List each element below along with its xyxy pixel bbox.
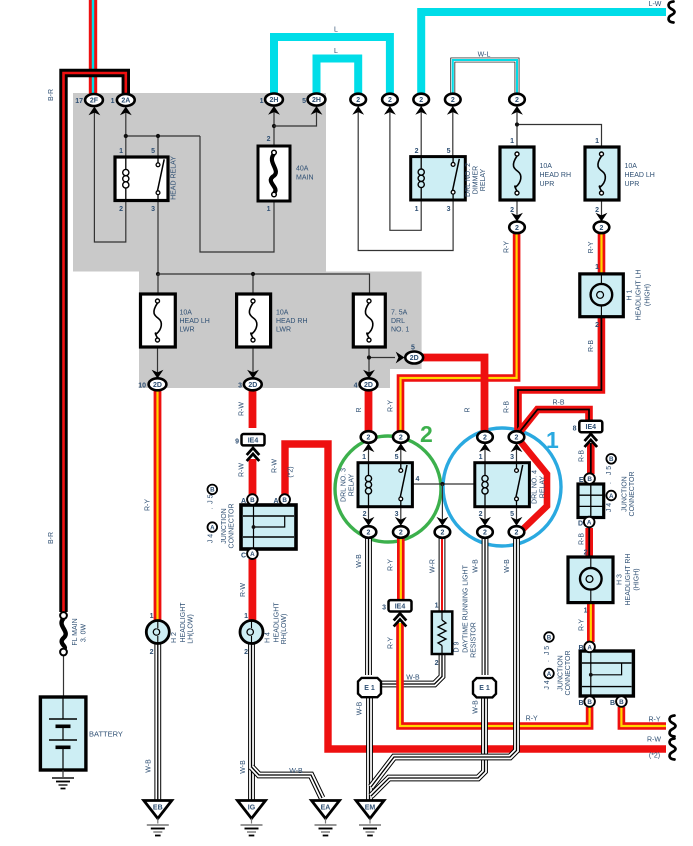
svg-text:R-Y: R-Y xyxy=(504,241,511,253)
connector 2 DRL relay bottom xyxy=(509,517,525,538)
wire W-B H4 to IG ground xyxy=(248,643,255,800)
svg-text:8: 8 xyxy=(573,426,577,433)
pin label 3 xyxy=(447,206,451,213)
svg-text:2: 2 xyxy=(479,511,483,518)
svg-text:H 2: H 2 xyxy=(171,632,178,643)
wire junction to head relay pin 1 xyxy=(125,136,127,157)
wire W-L dimmer to UPR fuses xyxy=(453,60,517,94)
svg-text:1: 1 xyxy=(260,98,264,105)
svg-text:W-R: W-R xyxy=(430,559,437,573)
pin label 2 xyxy=(584,550,588,557)
svg-text:A: A xyxy=(587,519,592,526)
pin label B xyxy=(578,700,583,707)
svg-text:A: A xyxy=(609,493,614,500)
label R-B horizontal xyxy=(552,400,564,407)
svg-text:A: A xyxy=(547,671,552,678)
relay HEAD RELAY xyxy=(115,157,168,201)
svg-text:.: . xyxy=(606,482,613,484)
headlight H4 HEADLIGHT RH LOW xyxy=(240,621,263,644)
svg-text:BATTERY: BATTERY xyxy=(89,730,123,739)
svg-text:LH(LOW): LH(LOW) xyxy=(188,614,195,644)
label W-B horizontal near D9 xyxy=(406,675,420,682)
label R-Y xyxy=(388,637,395,649)
svg-text:A: A xyxy=(210,524,215,531)
svg-text:DAYTIME RUNNING LIGHT: DAYTIME RUNNING LIGHT xyxy=(462,564,469,652)
label CONNECTOR xyxy=(565,651,572,696)
label R xyxy=(356,407,363,412)
svg-text:L: L xyxy=(334,48,338,55)
connector 10(2D) xyxy=(149,370,167,391)
label HEADLIGHT xyxy=(274,602,281,643)
pin label 3 xyxy=(382,605,386,612)
wire B-R battery feed xyxy=(64,73,126,612)
gray block: relay box upper section xyxy=(73,93,326,272)
svg-text:RELAY: RELAY xyxy=(540,475,547,498)
wire R 5(2D) to DRL NO.4 pin1 xyxy=(423,358,485,432)
pin D(A) junction upper right xyxy=(584,517,595,528)
wire R 4(2D) to DRL NO.3 pin1 xyxy=(365,390,373,431)
label JUNCTION xyxy=(558,655,565,690)
svg-text:2: 2 xyxy=(440,530,444,537)
wire dimmer relay pin 1 loop to 2 connector xyxy=(390,106,421,230)
label R-W xyxy=(240,583,247,597)
svg-text:.: . xyxy=(207,507,214,509)
gray block: relay box right extension xyxy=(326,272,422,370)
svg-text:JUNCTION: JUNCTION xyxy=(622,476,629,511)
svg-text:IE4: IE4 xyxy=(586,424,597,431)
pin label 5 above 5(2D) xyxy=(411,345,415,352)
wire W-B DRL4 pin5 to EM ground xyxy=(371,538,517,787)
svg-text:W-B: W-B xyxy=(240,760,247,774)
svg-text:A: A xyxy=(241,498,246,505)
label RH(LOW) xyxy=(281,614,288,645)
label DRL NO. 2 xyxy=(465,163,472,197)
svg-text:J 5: J 5 xyxy=(544,646,551,655)
svg-text:1: 1 xyxy=(150,613,154,620)
pin label 1 xyxy=(119,148,123,155)
svg-text:CONNECTOR: CONNECTOR xyxy=(629,472,636,517)
svg-text:1: 1 xyxy=(595,264,599,271)
connector 2 top row xyxy=(382,94,398,115)
label (*2) xyxy=(288,466,295,477)
pin label 1 xyxy=(510,138,514,145)
node dot fuse bus middle xyxy=(251,272,255,276)
svg-text:2: 2 xyxy=(415,148,419,155)
label HEADLIGHT RH xyxy=(625,554,632,606)
battery ground xyxy=(52,770,74,789)
connector 2 DRL relay bottom xyxy=(477,517,493,538)
svg-text:HEAD RH: HEAD RH xyxy=(276,318,308,325)
svg-text:2: 2 xyxy=(267,136,271,143)
wire DRL NO.4 relay pin5 bottom xyxy=(516,507,518,526)
svg-text:DRL: DRL xyxy=(391,318,405,325)
svg-text:7. 5A: 7. 5A xyxy=(391,310,408,317)
label R-Y xyxy=(579,619,586,631)
svg-text:EB: EB xyxy=(153,805,163,812)
svg-text:3: 3 xyxy=(395,511,399,518)
pin label 2 xyxy=(119,206,123,213)
svg-text:2: 2 xyxy=(119,206,123,213)
label HEADLIGHT LH xyxy=(636,270,643,321)
svg-text:R-B: R-B xyxy=(579,533,586,545)
svg-text:HEAD RH: HEAD RH xyxy=(540,172,572,179)
svg-text:1: 1 xyxy=(584,608,588,615)
wire W-B D9 pin2 to E1 xyxy=(381,654,442,684)
node dot UPR fuse bus xyxy=(515,122,519,126)
fuse 10A HEAD LH LWR xyxy=(141,294,176,347)
pin label 1 xyxy=(479,454,483,461)
pin label D xyxy=(578,521,583,528)
svg-text:W-B: W-B xyxy=(473,700,480,714)
wire W-B branch to EA ground xyxy=(252,767,323,798)
svg-text:1: 1 xyxy=(546,427,559,453)
pin label A xyxy=(241,498,246,505)
svg-text:E: E xyxy=(579,477,584,484)
node dot at 2H junction xyxy=(272,124,276,128)
svg-text:W-B: W-B xyxy=(289,768,303,775)
svg-text:1: 1 xyxy=(595,138,599,145)
svg-text:B: B xyxy=(587,476,592,483)
svg-text:5: 5 xyxy=(395,454,399,461)
svg-text:A: A xyxy=(587,644,592,651)
svg-text:2: 2 xyxy=(595,322,599,329)
blue highlight circle around DRL NO.4 relay xyxy=(443,427,561,546)
ground EB xyxy=(144,801,172,836)
svg-text:RELAY: RELAY xyxy=(349,473,356,496)
pin label 2 xyxy=(267,136,271,143)
svg-text:B: B xyxy=(282,497,287,504)
svg-text:2F: 2F xyxy=(90,98,99,105)
octagon connector E1 right xyxy=(473,678,496,697)
label W-B xyxy=(240,760,247,774)
connector 2 DRL relay bottom xyxy=(435,517,451,538)
svg-text:CONNECTOR: CONNECTOR xyxy=(229,504,236,549)
svg-text:J 4: J 4 xyxy=(544,680,551,689)
wire W-R DRL connector to D9 pin1 xyxy=(439,538,446,612)
pin label 1 xyxy=(415,206,419,213)
svg-text:A: A xyxy=(250,551,255,558)
svg-text:5: 5 xyxy=(151,148,155,155)
svg-text:9: 9 xyxy=(235,439,239,446)
pin label 9 xyxy=(235,439,239,446)
svg-text:RH(LOW): RH(LOW) xyxy=(281,614,288,645)
pin label 1 xyxy=(362,454,366,461)
wire L outer 2H to dimmer connector xyxy=(274,37,390,94)
label R-W xyxy=(239,402,246,416)
label B-R xyxy=(48,89,55,101)
svg-text:D: D xyxy=(578,521,583,528)
svg-text:H 3: H 3 xyxy=(617,574,624,585)
svg-text:E 1: E 1 xyxy=(364,685,375,692)
pin label B xyxy=(610,700,615,707)
wire W-B E1 to EM ground xyxy=(366,696,373,800)
svg-text:R-Y: R-Y xyxy=(526,716,538,723)
svg-text:R-Y: R-Y xyxy=(579,619,586,631)
octagon connector E1 left xyxy=(358,678,381,697)
green highlight circle around DRL NO.3 relay xyxy=(335,421,441,542)
label R-W xyxy=(272,459,279,473)
label W-R xyxy=(430,559,437,573)
label D 9 xyxy=(454,641,461,652)
wire R-B junction connector to H3 xyxy=(585,528,593,558)
label RELAY xyxy=(480,168,487,191)
svg-text:HEAD LH: HEAD LH xyxy=(180,318,210,325)
fuse 10A HEAD RH LWR xyxy=(237,294,271,347)
pin label 1 xyxy=(260,98,264,105)
connector 2 DRL relay top xyxy=(477,431,493,452)
label DAYTIME RUNNING LIGHT xyxy=(462,564,469,652)
label L inner wire xyxy=(334,48,338,55)
svg-text:B: B xyxy=(210,487,215,494)
pin label 1 xyxy=(244,613,248,620)
label (*2) right edge xyxy=(649,753,660,760)
svg-text:2: 2 xyxy=(367,435,371,442)
svg-text:DRL NO. 4: DRL NO. 4 xyxy=(532,470,539,504)
svg-text:(*2): (*2) xyxy=(288,466,295,477)
pin label 1 xyxy=(584,608,588,615)
svg-text:3. 0W: 3. 0W xyxy=(81,623,88,642)
svg-text:10A: 10A xyxy=(625,163,638,170)
svg-text:B: B xyxy=(547,634,552,641)
wire head relay pin 2 loop to 2F xyxy=(94,106,125,242)
wire FL MAIN to battery xyxy=(63,655,65,697)
pin label 1 xyxy=(111,98,115,105)
svg-text:2: 2 xyxy=(399,530,403,537)
continuation squiggle L-W top right xyxy=(669,2,675,23)
svg-text:CONNECTOR: CONNECTOR xyxy=(565,651,572,696)
wire DRL NO.4 relay pin3 top xyxy=(516,443,518,463)
svg-text:2: 2 xyxy=(515,435,519,442)
svg-text:HEADLIGHT RH: HEADLIGHT RH xyxy=(625,554,632,606)
wire UPR LH fuse to 2 connector xyxy=(601,200,603,221)
connector 17(2F) xyxy=(85,94,103,115)
connector 5(2D) xyxy=(396,352,423,364)
wire R-Y UPR LH fuse to H1 xyxy=(598,232,606,275)
svg-text:L-W: L-W xyxy=(649,1,662,8)
pin label 8 xyxy=(573,426,577,433)
pin label 1 xyxy=(595,138,599,145)
label H 1 xyxy=(627,289,634,300)
label W-B xyxy=(356,554,363,568)
label fuse 10A HEAD RH UPR xyxy=(540,163,553,170)
svg-text:J 4: J 4 xyxy=(207,534,214,543)
wire DRL NO.3 relay pin5 top xyxy=(400,443,402,463)
svg-text:UPR: UPR xyxy=(540,181,555,188)
wire W-B DRL4 pin2 to E1 xyxy=(482,538,489,675)
label J4(A) J5(B) lower right junction xyxy=(544,632,554,689)
svg-text:B: B xyxy=(610,700,615,707)
svg-text:IG: IG xyxy=(248,805,256,812)
wire L-W main feed top xyxy=(421,12,666,94)
svg-text:4: 4 xyxy=(416,476,420,483)
battery xyxy=(40,697,86,770)
svg-text:2: 2 xyxy=(388,97,392,104)
label R-B xyxy=(588,340,595,352)
svg-text:FL MAIN: FL MAIN xyxy=(72,618,79,645)
svg-text:R-W: R-W xyxy=(240,583,247,597)
svg-text:EM: EM xyxy=(365,805,376,812)
wire R-Y DRL NO.3 pin3 to 3 IE4 xyxy=(397,538,405,601)
svg-text:10A: 10A xyxy=(276,310,289,317)
pin label 2 xyxy=(150,649,154,656)
wire L inner 2H to dimmer connector xyxy=(317,59,359,95)
pin B(A) junction lower right xyxy=(584,642,595,653)
junction connector J4/J5 left xyxy=(241,505,296,549)
svg-text:RESISTOR: RESISTOR xyxy=(471,622,478,658)
svg-text:5: 5 xyxy=(447,148,451,155)
svg-text:2: 2 xyxy=(483,435,487,442)
svg-text:R-W: R-W xyxy=(239,463,246,477)
ground EA xyxy=(312,801,340,836)
wire DRL NO.4 relay pin2 bottom xyxy=(484,507,486,526)
svg-text:R-B: R-B xyxy=(579,450,586,462)
wire R-Y UPR RH fuse to DRL NO.3 pin5 xyxy=(401,232,517,431)
label DIMMER xyxy=(473,166,480,194)
label RELAY xyxy=(349,473,356,496)
svg-text:B: B xyxy=(619,699,624,706)
wire R-Y 3 IE4 to junction connector bottom run xyxy=(400,623,590,726)
label (HIGH) xyxy=(645,284,652,306)
connector 2 top row xyxy=(350,94,366,115)
svg-text:HEADLIGHT: HEADLIGHT xyxy=(274,602,281,643)
label JUNCTION xyxy=(221,508,228,543)
svg-text:W-B: W-B xyxy=(473,559,480,573)
svg-text:B-R: B-R xyxy=(48,532,55,544)
pin label 1 xyxy=(150,613,154,620)
pin label 2 xyxy=(595,207,599,214)
junction connector J4/J5 lower right xyxy=(580,651,633,696)
label R-W right edge xyxy=(647,737,661,744)
connector 2 below UPR RH fuse xyxy=(509,213,525,233)
connector 2 DRL relay bottom xyxy=(393,517,409,538)
pin label 2 xyxy=(363,511,367,518)
svg-text:R: R xyxy=(356,407,363,412)
wire head relay pin5 bus to 40A MAIN pin 1 xyxy=(200,136,274,252)
label 40A MAIN xyxy=(296,166,309,173)
svg-text:2: 2 xyxy=(399,435,403,442)
continuation squiggle R-Y right xyxy=(670,716,676,737)
connector 2 top row xyxy=(509,94,525,115)
svg-text:HEAD RELAY: HEAD RELAY xyxy=(171,156,178,200)
node dot on pin4 wire xyxy=(440,482,444,486)
svg-text:4: 4 xyxy=(354,383,358,390)
svg-text:R: R xyxy=(465,407,472,412)
connector 2 DRL relay top xyxy=(361,431,377,452)
svg-text:NO. 1: NO. 1 xyxy=(391,327,409,334)
connector 3 IE4 xyxy=(389,600,412,626)
pin label 2 xyxy=(415,148,419,155)
node dot below fuse3 xyxy=(367,355,371,359)
pin label 2 xyxy=(595,322,599,329)
pin label 4 xyxy=(354,383,358,390)
svg-text:2D: 2D xyxy=(153,382,162,389)
wire 2 connector to dimmer relay pin 2 xyxy=(420,106,422,157)
label DRL NO. 4 xyxy=(532,470,539,504)
relay DRL NO.4 RELAY xyxy=(475,463,530,507)
svg-text:E 1: E 1 xyxy=(479,685,490,692)
svg-text:R-Y: R-Y xyxy=(388,400,395,412)
svg-text:A: A xyxy=(273,498,278,505)
svg-text:W-B: W-B xyxy=(357,701,364,715)
svg-text:1: 1 xyxy=(362,454,366,461)
resistor D9 DAYTIME RUNNING LIGHT RESISTOR xyxy=(432,612,453,655)
label JUNCTION xyxy=(622,476,629,511)
svg-text:1: 1 xyxy=(119,148,123,155)
wire R-W 9 IE4 to junction connector xyxy=(249,459,257,495)
svg-text:DRL NO. 2: DRL NO. 2 xyxy=(465,163,472,197)
pin label 1 xyxy=(435,603,439,610)
svg-text:2: 2 xyxy=(515,530,519,537)
pin label 2 xyxy=(244,649,248,656)
wire DRL NO.3 relay pin1 top xyxy=(368,443,370,463)
svg-text:2H: 2H xyxy=(312,97,321,104)
svg-text:(HIGH): (HIGH) xyxy=(634,568,641,590)
wire DRL NO.4 relay pin1 top xyxy=(484,443,486,463)
svg-text:1: 1 xyxy=(510,138,514,145)
svg-text:H 4: H 4 xyxy=(265,632,272,643)
pin B(B) junction lower right 1 xyxy=(584,696,595,707)
wire DRL NO.3 relay pin3 bottom xyxy=(400,507,402,526)
svg-text:10A: 10A xyxy=(180,310,193,317)
connector 2 below UPR LH fuse xyxy=(594,213,610,233)
connector 3(2D) xyxy=(244,370,262,391)
label LH(LOW) xyxy=(188,614,195,644)
wire R-L from top into 2F xyxy=(89,0,97,95)
svg-text:R-Y: R-Y xyxy=(388,559,395,571)
ground IG xyxy=(238,801,266,836)
label L outer wire xyxy=(334,27,338,34)
fusible link 40A MAIN xyxy=(258,146,290,201)
svg-text:2: 2 xyxy=(515,225,519,232)
label R-Y xyxy=(388,400,395,412)
svg-text:5: 5 xyxy=(302,98,306,105)
label R-Y xyxy=(388,559,395,571)
svg-text:2: 2 xyxy=(515,97,519,104)
svg-text:10A: 10A xyxy=(540,163,553,170)
wire fuse3 to 4(2D) and 5(2D) branch xyxy=(369,347,395,378)
wire W-L connector to UPR fuse bus xyxy=(517,106,602,147)
connector 2 DRL relay top xyxy=(393,431,409,452)
svg-text:JUNCTION: JUNCTION xyxy=(221,508,228,543)
pin label 3 xyxy=(395,511,399,518)
label FL MAIN xyxy=(72,618,79,645)
svg-text:R-Y: R-Y xyxy=(648,717,660,724)
svg-text:RELAY: RELAY xyxy=(480,168,487,191)
label J4(A) J5(B) left junction xyxy=(207,485,217,544)
svg-text:2D: 2D xyxy=(248,382,257,389)
svg-text:2: 2 xyxy=(420,421,433,447)
pin label 5 xyxy=(510,511,514,518)
label R-Y xyxy=(504,241,511,253)
label (HIGH) xyxy=(634,568,641,590)
pin label 3 xyxy=(151,206,155,213)
svg-text:JUNCTION: JUNCTION xyxy=(558,655,565,690)
svg-text:2H: 2H xyxy=(270,97,279,104)
svg-text:J 5: J 5 xyxy=(606,466,613,475)
label W-B xyxy=(504,559,511,573)
label fuse 7.5A DRL NO.1 xyxy=(391,310,408,317)
wire W-B DRL3 pin2 to E1 xyxy=(365,538,372,675)
pin label 1 xyxy=(267,206,271,213)
wire fuse2 to 3(2D) xyxy=(252,347,254,378)
fuse 10A HEAD LH UPR xyxy=(585,147,619,200)
svg-text:1: 1 xyxy=(244,613,248,620)
wire 2A to head relay junction xyxy=(125,106,127,136)
svg-text:2: 2 xyxy=(367,530,371,537)
wire R-B H1 to DRL NO.4 pin3 xyxy=(518,316,601,431)
label CONNECTOR xyxy=(629,472,636,517)
pin B(B) junction lower right 2 xyxy=(616,696,627,707)
